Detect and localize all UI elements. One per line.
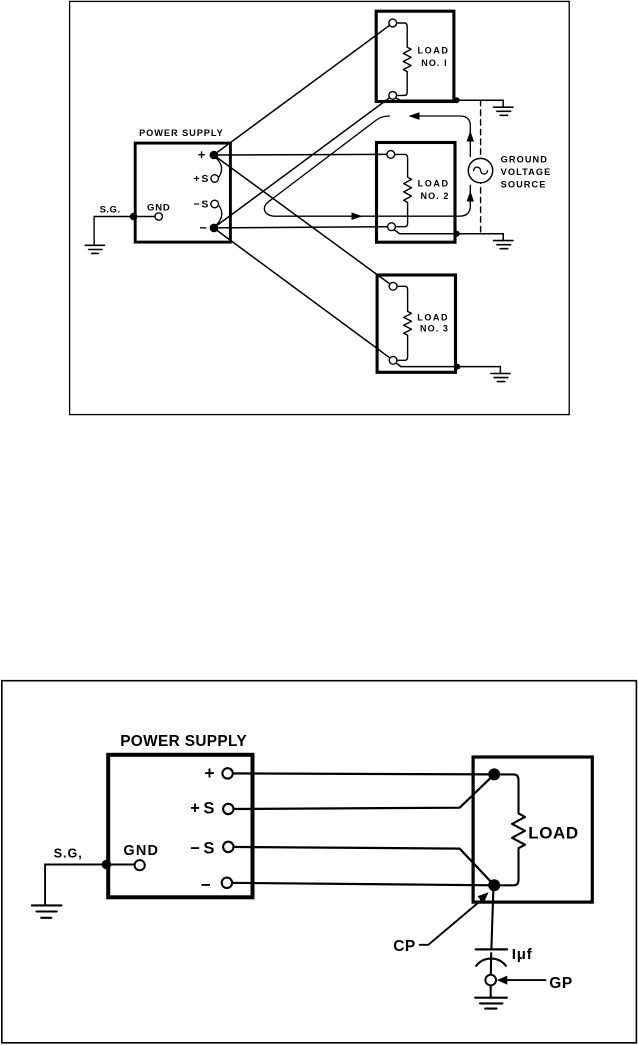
arrow up on loop right lower	[467, 191, 474, 202]
S.G. junction dot (fig1)	[130, 213, 138, 221]
load3 bottom terminal	[389, 356, 397, 364]
arrow left on loop top	[409, 112, 420, 120]
wire - to load bottom node	[227, 883, 494, 886]
dashed ground line	[480, 100, 482, 233]
ground at load2	[494, 241, 513, 249]
svg-text:GROUND: GROUND	[501, 155, 548, 165]
junction load3 ground	[454, 364, 460, 370]
jumper + to +S	[216, 158, 221, 177]
load1 bottom wire to ground	[396, 98, 504, 107]
svg-text:GND: GND	[147, 202, 171, 213]
svg-text:CP: CP	[393, 938, 416, 955]
load bottom node dot	[488, 879, 500, 891]
CP leader line and arrow	[420, 900, 482, 945]
figure 2 frame	[2, 681, 637, 1043]
svg-text:S.G.: S.G.	[100, 205, 121, 216]
arrow up on loop right upper	[467, 131, 474, 142]
ground loop current path	[264, 116, 470, 216]
wire + to load3 top	[214, 155, 394, 286]
S.G. wire and ground (fig2)	[45, 865, 106, 906]
wire + to load top node	[228, 773, 495, 774]
power supply box (fig1)	[135, 143, 230, 242]
GP arrow line	[505, 979, 546, 981]
svg-text:VOLTAGE: VOLTAGE	[501, 167, 552, 177]
wire + to load1 top	[214, 23, 393, 155]
svg-text:GP: GP	[549, 975, 572, 992]
ground at S.G. (fig2)	[32, 905, 62, 917]
terminal - (fig2)	[222, 878, 232, 888]
load1 top terminal	[389, 19, 397, 27]
svg-text:NO. 2: NO. 2	[420, 191, 449, 201]
load top node dot	[488, 768, 500, 780]
gnd link wire (fig2)	[106, 864, 139, 866]
wire - to load3 bottom	[214, 228, 394, 360]
svg-text:+S: +S	[190, 800, 217, 818]
svg-text:NO. I: NO. I	[421, 58, 448, 68]
load3 bottom wire to ground	[396, 363, 501, 373]
terminal - dot	[210, 224, 219, 233]
svg-text:−S: −S	[190, 839, 217, 857]
svg-text:−: −	[199, 221, 206, 235]
load box (fig2)	[473, 757, 592, 902]
capacitor curved plate	[476, 959, 506, 966]
load2 top terminal	[387, 151, 395, 159]
svg-text:−: −	[201, 875, 211, 894]
GP terminal circle	[485, 975, 496, 986]
figure 1 frame	[70, 1, 570, 414]
load1 bottom terminal	[389, 92, 397, 100]
resistor R-load3	[397, 286, 411, 360]
svg-text:POWER SUPPLY: POWER SUPPLY	[120, 733, 247, 750]
ground at load1	[494, 107, 513, 115]
wire - to load1 bottom	[214, 95, 393, 228]
wire +S sense to top node	[228, 774, 494, 809]
load no.3 box	[377, 275, 455, 372]
load2 bottom terminal	[388, 223, 396, 231]
ground at GP	[475, 998, 507, 1009]
S.G. junction dot (fig2)	[102, 860, 112, 870]
wire - to load2 bottom	[214, 227, 392, 228]
power supply box (fig2)	[108, 755, 252, 898]
svg-text:SOURCE: SOURCE	[501, 179, 547, 189]
svg-text:S.G,: S.G,	[54, 846, 83, 860]
svg-text:Iμf: Iμf	[512, 946, 533, 963]
svg-text:POWER SUPPLY: POWER SUPPLY	[139, 128, 224, 138]
terminal +S (fig2)	[223, 804, 233, 814]
terminal -S	[211, 200, 219, 208]
terminal +S	[211, 175, 219, 183]
wire bottom node to capacitor	[491, 885, 493, 948]
wire + to load2 top	[214, 153, 391, 156]
GND terminal (fig1)	[155, 213, 162, 220]
capacitor bottom lead	[490, 953, 493, 974]
junction load1 ground	[454, 97, 460, 103]
load3 top terminal	[389, 282, 397, 290]
resistor R-load1	[397, 23, 412, 95]
wire -S sense to bottom node	[228, 847, 494, 885]
load no.2 box	[377, 143, 456, 243]
svg-text:+: +	[198, 147, 206, 162]
sine symbol in source	[474, 167, 488, 174]
ground at S.G. (fig1)	[85, 245, 104, 253]
jumper -S to -	[216, 206, 221, 225]
svg-text:LOAD: LOAD	[418, 179, 450, 189]
load resistor (fig2)	[494, 774, 525, 885]
terminal + dot	[210, 151, 219, 160]
S.G. wire and ground (fig1)	[94, 217, 155, 246]
load no.1 box	[376, 11, 454, 101]
arrow right on loop bottom	[352, 212, 363, 220]
svg-text:LOAD: LOAD	[418, 45, 450, 55]
svg-text:+: +	[204, 763, 214, 783]
resistor R-load2	[395, 154, 412, 226]
GP ground stub	[490, 986, 492, 998]
junction load2 ground	[454, 231, 460, 237]
load2 bottom wire to ground	[394, 230, 503, 241]
GND terminal (fig2)	[135, 860, 145, 870]
svg-text:+S: +S	[193, 173, 210, 185]
capacitor top plate	[476, 948, 507, 950]
terminal -S (fig2)	[223, 842, 233, 852]
svg-text:GND: GND	[123, 843, 159, 859]
terminal + (fig2)	[222, 768, 232, 778]
svg-text:NO. 3: NO. 3	[420, 323, 449, 333]
ground at load3	[491, 374, 510, 382]
svg-text:LOAD: LOAD	[528, 823, 579, 842]
svg-text:LOAD: LOAD	[417, 312, 449, 322]
svg-text:−S: −S	[193, 199, 210, 211]
ground voltage source circle	[468, 158, 492, 182]
